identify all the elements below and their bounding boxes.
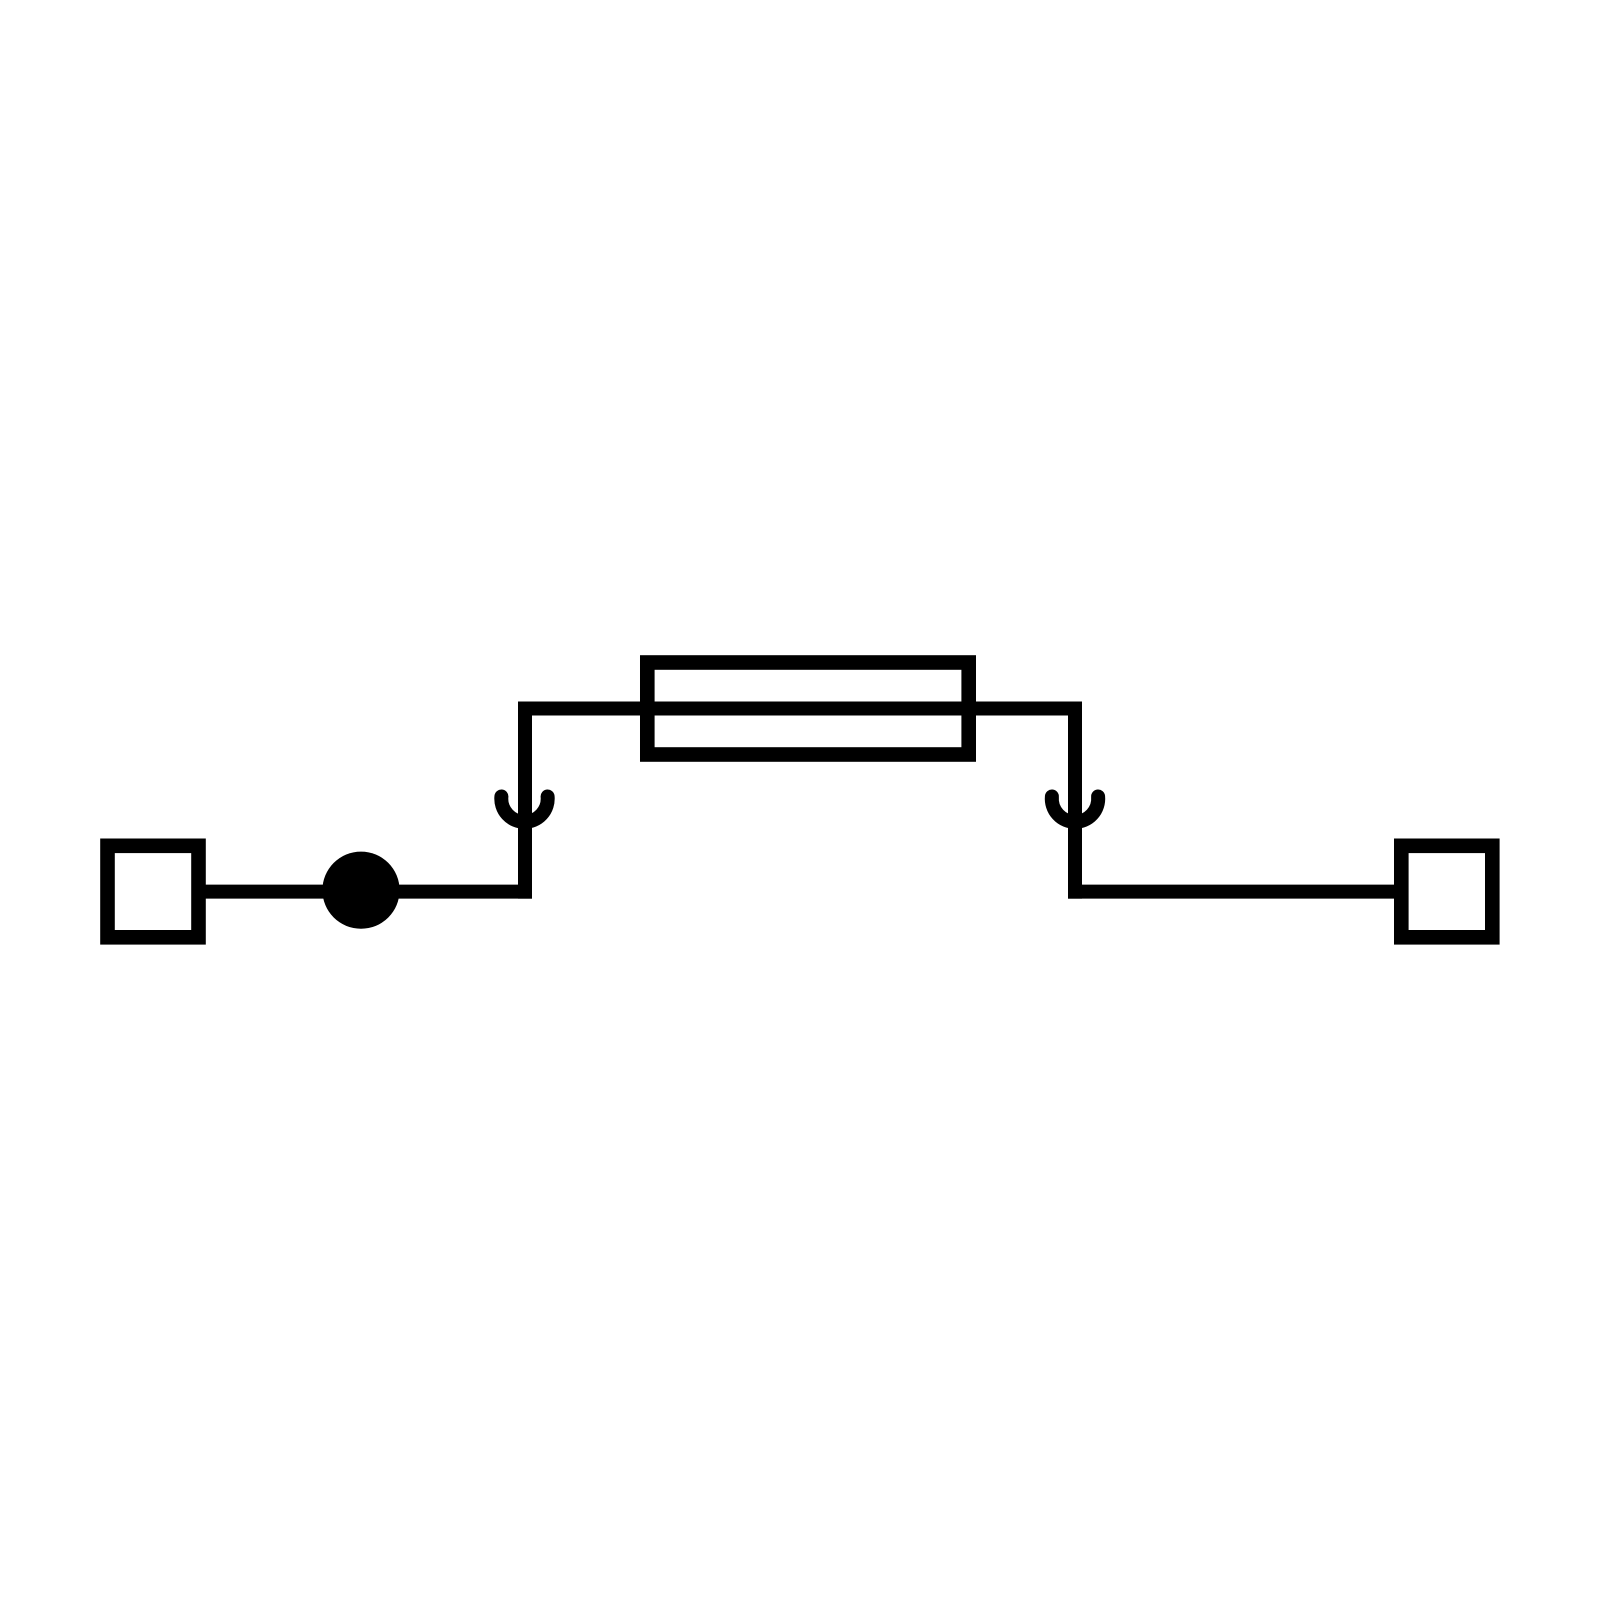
wire: right vertical to right terminal — [1068, 885, 1401, 899]
wire: left terminal to left vertical riser (through junction) — [200, 885, 532, 899]
fuse F1 (cartridge body rectangle) — [647, 663, 968, 755]
terminal square (left clamp connection point) — [108, 846, 199, 938]
wire: left vertical riser — [518, 702, 532, 899]
wire: right vertical riser — [1068, 702, 1082, 899]
node: junction dot — [322, 852, 399, 929]
wire: top horizontal through fuse — [518, 702, 1082, 716]
fuse holder contact clip (right) — [1052, 797, 1098, 822]
terminal square (right clamp connection point) — [1401, 846, 1492, 938]
fuse holder contact clip (left) — [501, 797, 547, 822]
